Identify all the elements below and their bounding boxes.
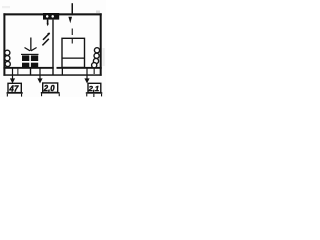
svg-text:2,1: 2,1 — [88, 84, 100, 93]
svg-text:47: 47 — [8, 85, 18, 94]
svg-text:2,0: 2,0 — [43, 84, 56, 93]
